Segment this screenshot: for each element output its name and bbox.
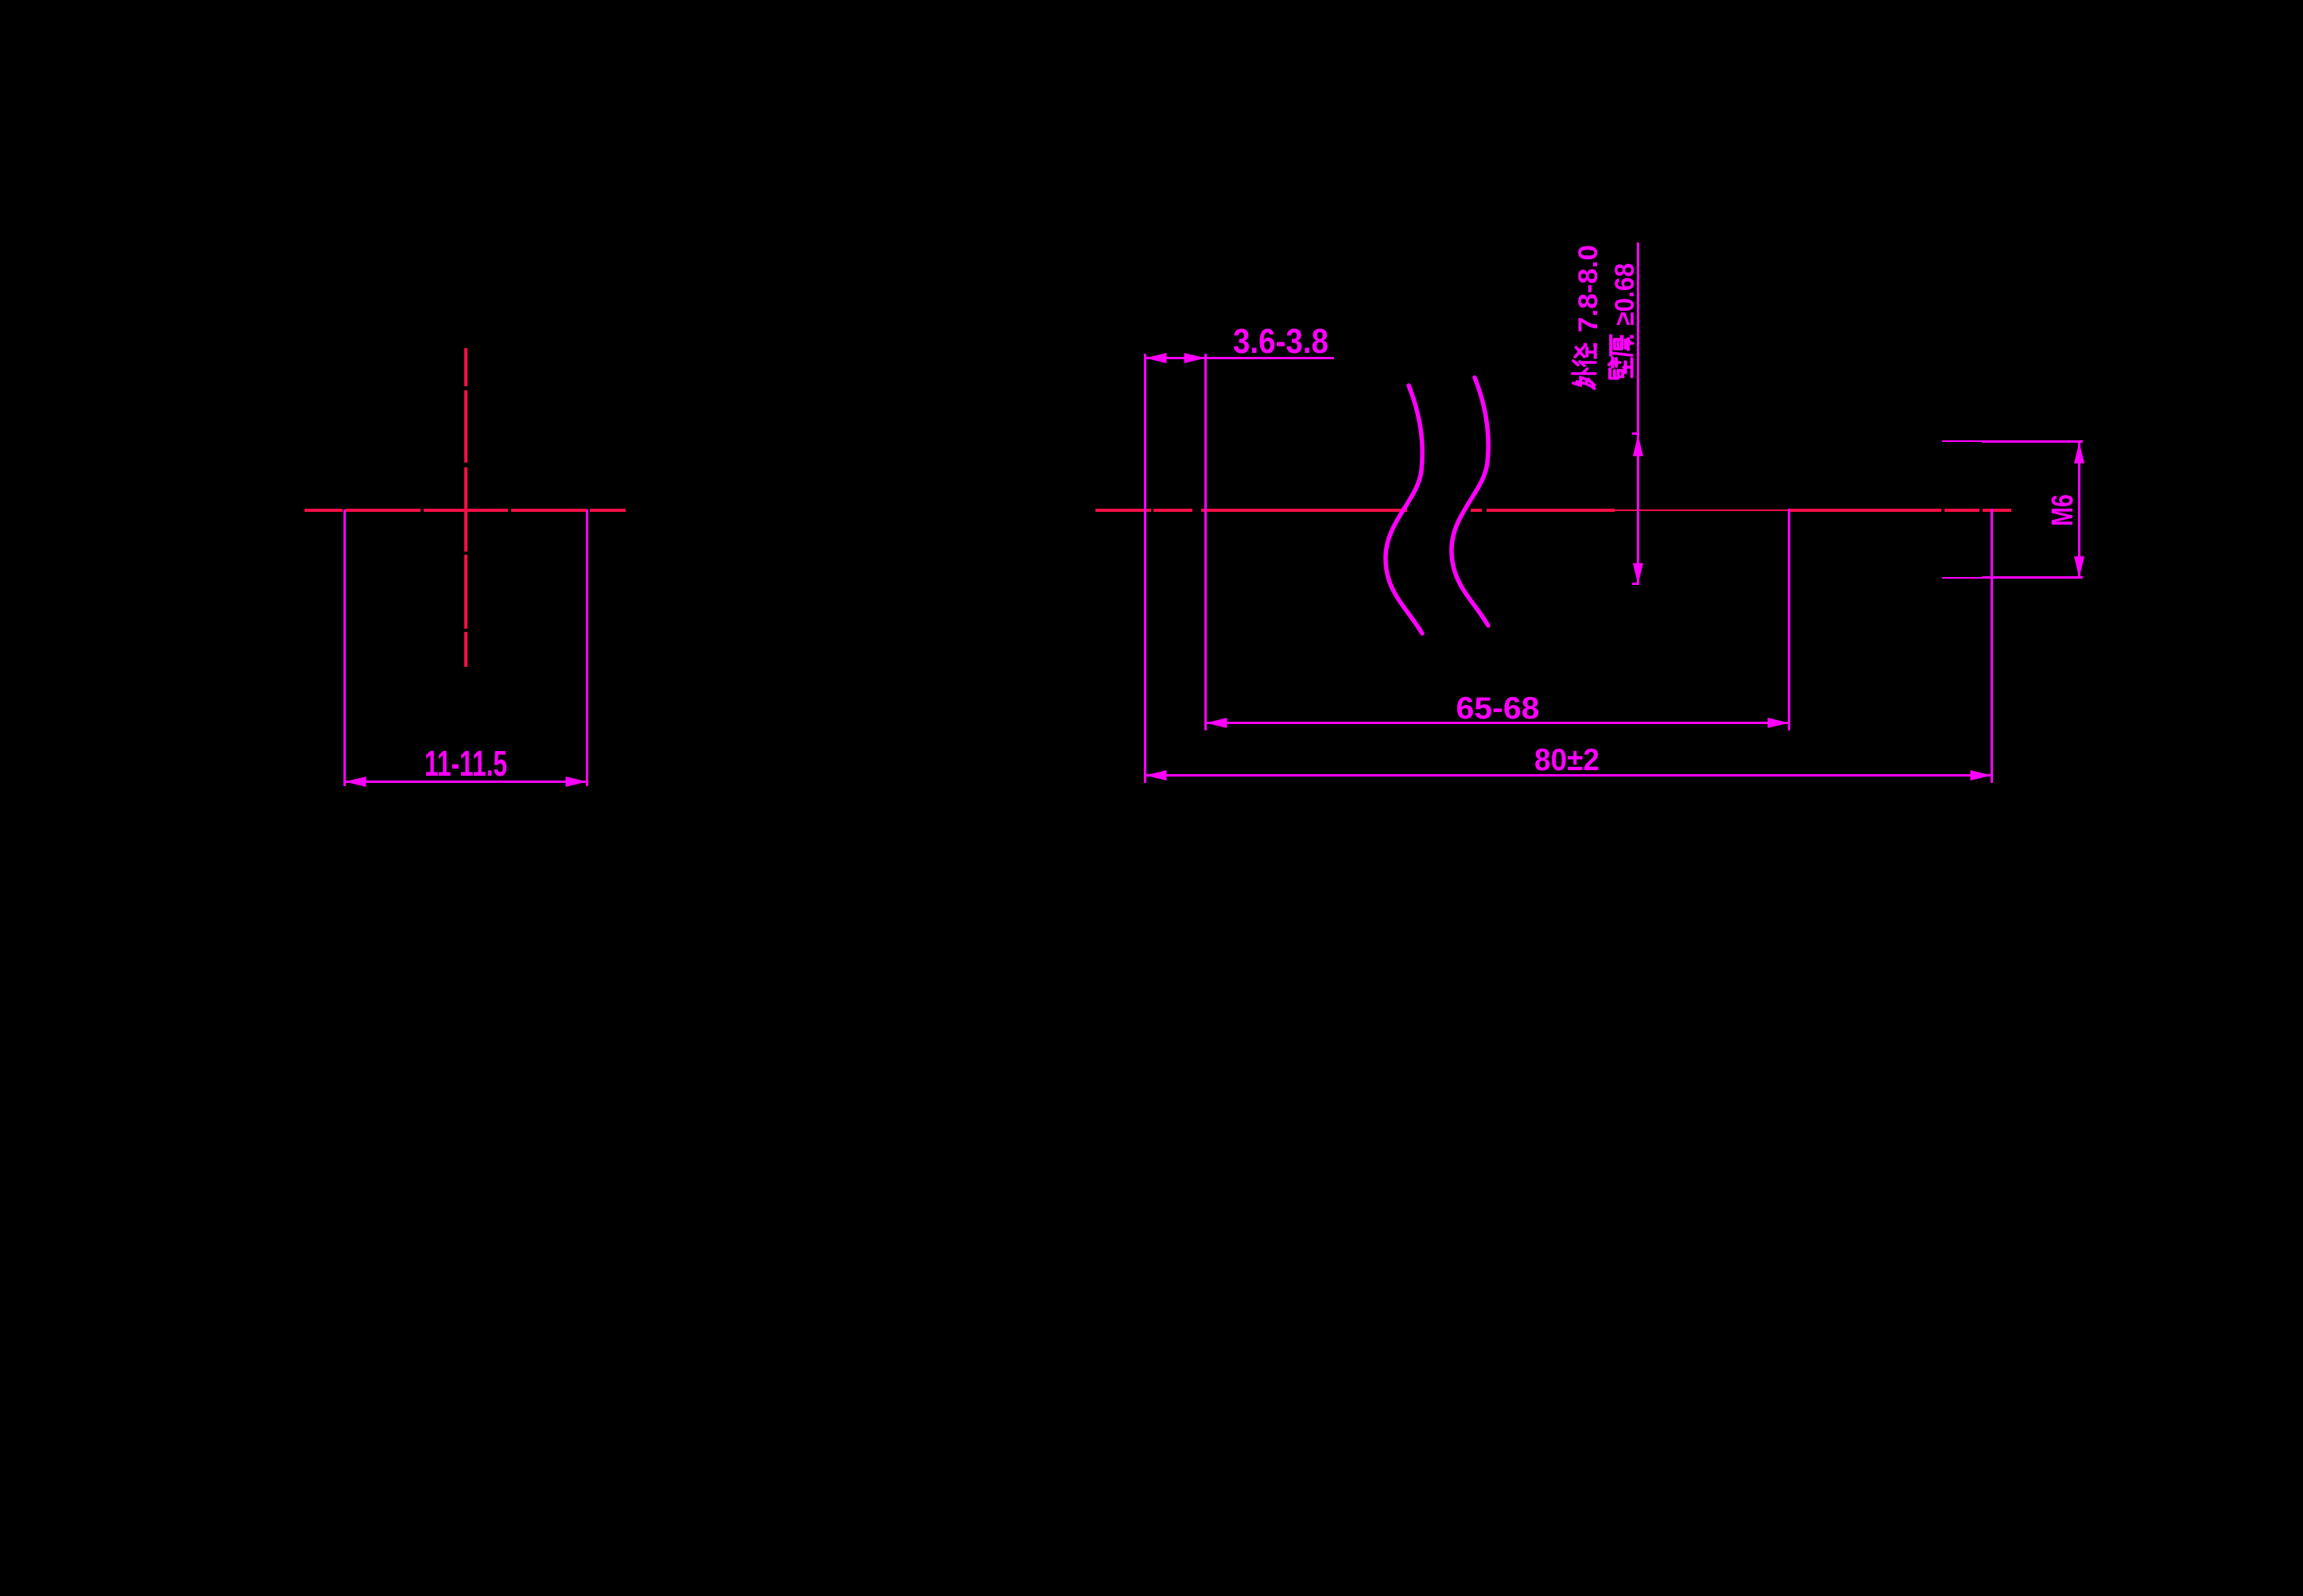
svg-text:80±2: 80±2 <box>1534 743 1599 777</box>
svg-text:M6: M6 <box>2046 494 2080 526</box>
svg-text:3.6-3.8: 3.6-3.8 <box>1233 322 1328 361</box>
svg-text:11-11.5: 11-11.5 <box>425 743 507 784</box>
svg-text:: 7.8-8.0: : 7.8-8.0 <box>1573 245 1603 350</box>
svg-text:: ≥0.68: : ≥0.68 <box>1610 263 1640 341</box>
svg-text:65-68: 65-68 <box>1456 691 1540 726</box>
